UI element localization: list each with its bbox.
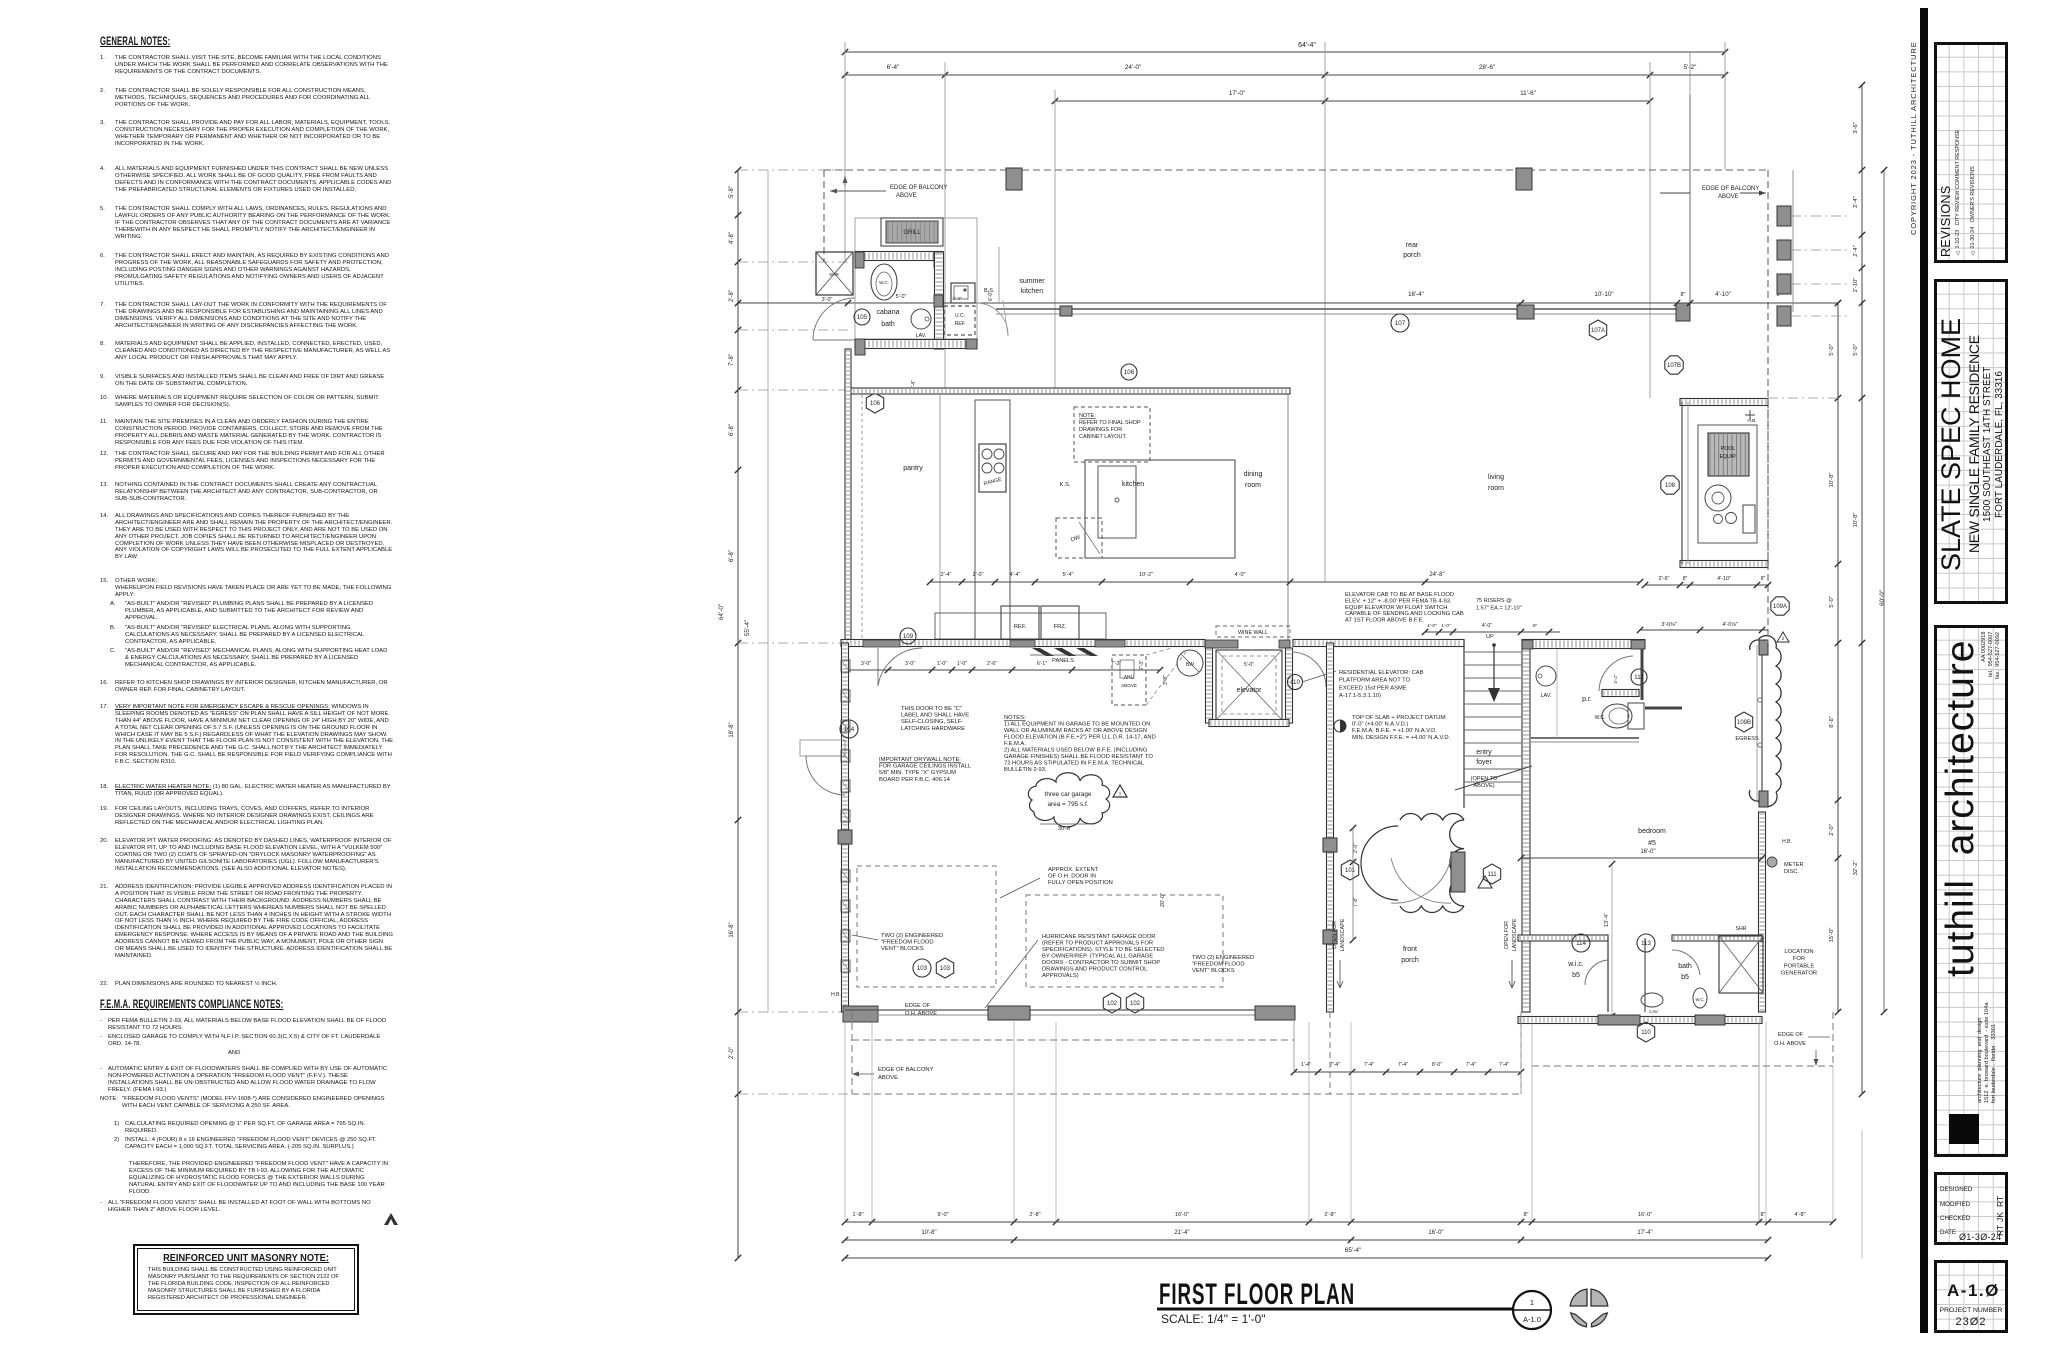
svg-text:24'-8": 24'-8"	[1429, 572, 1444, 578]
svg-text:4'-4": 4'-4"	[1010, 572, 1021, 578]
svg-text:REF.: REF.	[955, 321, 966, 327]
svg-text:1'-8": 1'-8"	[852, 1212, 863, 1218]
svg-text:POOL: POOL	[1721, 446, 1736, 452]
svg-text:EDGE OF BALCONY: EDGE OF BALCONY	[878, 1067, 934, 1073]
svg-text:H.B.: H.B.	[1782, 839, 1792, 845]
svg-text:2'-6": 2'-6"	[1659, 576, 1670, 582]
svg-text:SPECIFICATIONS). STYLE TO BE S: SPECIFICATIONS). STYLE TO BE SELECTED	[1042, 947, 1164, 953]
svg-text:2'-4": 2'-4"	[941, 572, 952, 578]
svg-text:10'-8": 10'-8"	[921, 1230, 936, 1236]
svg-text:"FREEDOM FLOOD: "FREEDOM FLOOD	[881, 940, 934, 946]
svg-text:CAPABLE OF SENDING AND LOCKING: CAPABLE OF SENDING AND LOCKING CAB	[1345, 611, 1464, 617]
svg-text:ELEV. + 12" + -8.00' PER FEMA: ELEV. + 12" + -8.00' PER FEMA TB 4-93.	[1345, 598, 1452, 604]
svg-text:SELF-CLOSING, SELF-: SELF-CLOSING, SELF-	[901, 719, 963, 725]
svg-text:5'-0": 5'-0"	[1853, 344, 1859, 356]
svg-text:16'-8": 16'-8"	[729, 922, 735, 937]
svg-text:BY OWNER/REP. (TYPICAL ALL GAR: BY OWNER/REP. (TYPICAL ALL GARAGE	[1042, 954, 1153, 960]
svg-text:F.E.M.A.: F.E.M.A.	[1004, 741, 1026, 747]
svg-text:15'-0": 15'-0"	[1829, 928, 1835, 943]
svg-text:111: 111	[1634, 674, 1644, 681]
svg-text:W.C.: W.C.	[1695, 997, 1704, 1002]
svg-text:4'-0⅝": 4'-0⅝"	[1722, 622, 1737, 628]
svg-text:U.C.: U.C.	[955, 313, 965, 319]
svg-text:porch: porch	[1403, 252, 1421, 259]
svg-text:110: 110	[1641, 1030, 1651, 1036]
svg-text:kitchen: kitchen	[1021, 288, 1043, 295]
svg-text:BOARD PER F.B.C. 406.14: BOARD PER F.B.C. 406.14	[879, 777, 951, 783]
svg-text:113: 113	[1641, 940, 1651, 947]
svg-text:living: living	[1488, 474, 1504, 481]
svg-text:109B: 109B	[1737, 720, 1751, 726]
svg-text:TOP OF SLAB + PROJECT DATUM:: TOP OF SLAB + PROJECT DATUM:	[1352, 715, 1447, 721]
svg-text:8'-0": 8'-0"	[1432, 1062, 1442, 1068]
svg-text:ABOVE: ABOVE	[896, 193, 917, 199]
svg-text:2'-8": 2'-8"	[1029, 1212, 1040, 1218]
svg-text:2'-0": 2'-0"	[1353, 843, 1359, 853]
svg-text:PANELS: PANELS	[1052, 658, 1074, 664]
svg-text:11'-6": 11'-6"	[1520, 90, 1536, 97]
svg-text:SHR: SHR	[1736, 926, 1747, 932]
svg-text:H.B.: H.B.	[1747, 418, 1756, 424]
svg-text:O.H. ABOVE: O.H. ABOVE	[905, 1011, 937, 1017]
svg-text:FIRST FLOOR PLAN: FIRST FLOOR PLAN	[1159, 1278, 1355, 1312]
svg-text:2'-8": 2'-8"	[1324, 1212, 1335, 1218]
svg-text:A-1.0: A-1.0	[1523, 1315, 1541, 1324]
svg-text:65'-4": 65'-4"	[1345, 1247, 1361, 1254]
svg-text:1: 1	[1119, 791, 1122, 796]
svg-text:NOTES:: NOTES:	[1004, 715, 1026, 721]
svg-text:TWO (2) ENGINEERED: TWO (2) ENGINEERED	[881, 933, 943, 939]
svg-text:109: 109	[903, 633, 914, 640]
svg-text:three car garage: three car garage	[1045, 791, 1092, 798]
svg-text:7'-4": 7'-4"	[1398, 1062, 1408, 1068]
svg-text:SCALE: 1/4" = 1'-0": SCALE: 1/4" = 1'-0"	[1161, 1312, 1266, 1326]
svg-text:17'-0": 17'-0"	[1229, 90, 1245, 97]
svg-text:1) ALL EQUIPMENT IN GARAGE TO: 1) ALL EQUIPMENT IN GARAGE TO BE MOUNTED…	[1004, 722, 1150, 728]
svg-text:110: 110	[1290, 679, 1300, 686]
svg-text:area = 795 s.f.: area = 795 s.f.	[1047, 801, 1088, 808]
svg-text:DOORS - CONTRACTOR TO SUBMIT S: DOORS - CONTRACTOR TO SUBMIT SHOP	[1042, 960, 1160, 966]
svg-text:103: 103	[917, 965, 928, 972]
svg-text:9'-0": 9'-0"	[937, 1212, 948, 1218]
svg-text:16'-0": 16'-0"	[1638, 1212, 1652, 1218]
svg-text:WINE WALL: WINE WALL	[1238, 630, 1268, 636]
svg-text:LABEL AND SHALL HAVE: LABEL AND SHALL HAVE	[901, 713, 969, 719]
svg-text:room: room	[1488, 485, 1504, 492]
svg-text:2'-8": 2'-8"	[729, 290, 735, 302]
svg-text:DRAWINGS FOR: DRAWINGS FOR	[1079, 427, 1122, 433]
svg-text:REFER TO FINAL SHOP: REFER TO FINAL SHOP	[1079, 420, 1141, 426]
svg-text:10'-10": 10'-10"	[1594, 291, 1613, 298]
svg-text:A-17.1-5.3.1.10): A-17.1-5.3.1.10)	[1339, 693, 1381, 699]
svg-text:7'-3": 7'-3"	[1139, 660, 1145, 670]
svg-text:1'-0": 1'-0"	[1441, 623, 1451, 629]
svg-text:5'-4": 5'-4"	[1063, 572, 1074, 578]
svg-text:107B: 107B	[1667, 363, 1681, 369]
svg-text:109A: 109A	[1773, 604, 1787, 610]
svg-text:3'-0": 3'-0"	[861, 661, 871, 667]
svg-text:THIS DOOR TO BE "C": THIS DOOR TO BE "C"	[901, 706, 962, 712]
svg-text:2'-4": 2'-4"	[952, 296, 962, 301]
svg-text:EQUIP ELEVATOR W/ FLOAT SWITCH: EQUIP ELEVATOR W/ FLOAT SWITCH	[1345, 605, 1447, 611]
svg-text:7'-4": 7'-4"	[1466, 1062, 1476, 1068]
svg-text:1: 1	[1530, 1298, 1534, 1307]
svg-text:LAV.: LAV.	[1649, 1009, 1658, 1014]
svg-text:W.C.: W.C.	[1595, 715, 1606, 721]
svg-text:EQUIP.: EQUIP.	[1720, 454, 1737, 460]
svg-text:0'-0" (+4.00' N.A.V.D.): 0'-0" (+4.00' N.A.V.D.)	[1352, 722, 1408, 728]
svg-text:75 RISERS @: 75 RISERS @	[1476, 598, 1512, 604]
svg-text:3'-6": 3'-6"	[1853, 122, 1859, 134]
svg-text:64'-0": 64'-0"	[718, 604, 725, 620]
svg-text:OPEN FOR: OPEN FOR	[1504, 921, 1510, 949]
svg-text:4'-8": 4'-8"	[1794, 1212, 1805, 1218]
svg-text:LATCHING HARDWARE: LATCHING HARDWARE	[901, 726, 965, 732]
svg-text:30'-8": 30'-8"	[1058, 826, 1072, 832]
svg-text:18'-8": 18'-8"	[729, 722, 735, 737]
svg-text:3'-0⅜": 3'-0⅜"	[1661, 622, 1676, 628]
svg-text:bath: bath	[881, 321, 895, 328]
svg-text:4'-10": 4'-10"	[1717, 576, 1731, 582]
svg-text:EDGE OF BALCONY: EDGE OF BALCONY	[1702, 186, 1759, 192]
svg-text:OPEN FOR: OPEN FOR	[1332, 921, 1338, 949]
svg-text:28'-6": 28'-6"	[1479, 64, 1495, 71]
svg-text:VENT" BLOCKS: VENT" BLOCKS	[1192, 968, 1235, 974]
svg-text:METER: METER	[1784, 862, 1804, 868]
svg-text:5/8" MIN. TYPE "X" GYPSUM: 5/8" MIN. TYPE "X" GYPSUM	[879, 770, 956, 776]
svg-text:bath: bath	[1678, 963, 1692, 970]
svg-text:W.C.: W.C.	[879, 280, 889, 285]
svg-text:101: 101	[1345, 868, 1356, 874]
svg-text:pantry: pantry	[903, 465, 923, 472]
svg-text:bedroom: bedroom	[1638, 828, 1666, 835]
svg-text:GRILL: GRILL	[903, 230, 921, 236]
svg-text:TWO (2) ENGINEERED: TWO (2) ENGINEERED	[1192, 955, 1254, 961]
svg-text:16'-0": 16'-0"	[1428, 1230, 1443, 1236]
svg-text:PLATFORM AREA NOT TO: PLATFORM AREA NOT TO	[1339, 678, 1411, 684]
svg-text:1'-0": 1'-0"	[957, 661, 967, 667]
svg-text:7'-4": 7'-4"	[1330, 1062, 1340, 1068]
svg-text:1'-4": 1'-4"	[1301, 1062, 1311, 1068]
svg-text:13'-4": 13'-4"	[1604, 913, 1610, 927]
svg-text:8": 8"	[1533, 623, 1538, 629]
svg-text:2: 2	[1782, 636, 1785, 641]
svg-text:60'-0": 60'-0"	[1879, 590, 1886, 606]
svg-text:106: 106	[1124, 369, 1135, 376]
svg-text:porch: porch	[1401, 957, 1419, 964]
svg-text:REF.: REF.	[1014, 624, 1027, 630]
svg-text:24'-0": 24'-0"	[1125, 64, 1141, 71]
svg-text:10'-8": 10'-8"	[1853, 513, 1859, 528]
svg-text:7'-4": 7'-4"	[1499, 1062, 1509, 1068]
svg-text:FULLY OPEN POSITION: FULLY OPEN POSITION	[1048, 880, 1113, 886]
svg-text:8": 8"	[1523, 1212, 1528, 1218]
svg-text:room: room	[1245, 482, 1261, 489]
svg-text:8": 8"	[1683, 576, 1688, 582]
svg-text:BULLETIN 2-93.: BULLETIN 2-93.	[1004, 767, 1047, 773]
svg-text:16'-4": 16'-4"	[1408, 291, 1424, 298]
svg-text:1'-0": 1'-0"	[1427, 623, 1437, 629]
svg-text:rear: rear	[1406, 242, 1419, 249]
svg-text:7'-8": 7'-8"	[729, 354, 735, 366]
svg-text:5'-8": 5'-8"	[729, 186, 735, 198]
svg-text:AT 1ST FLOOR ABOVE B.F.E.: AT 1ST FLOOR ABOVE B.F.E.	[1345, 618, 1424, 624]
svg-text:6'-4": 6'-4"	[887, 64, 900, 71]
svg-text:HURRICANE RESISTANT GARAGE DOO: HURRICANE RESISTANT GARAGE DOOR	[1042, 934, 1155, 940]
svg-text:EGRESS: EGRESS	[1735, 736, 1759, 742]
svg-text:b5: b5	[1572, 972, 1580, 979]
svg-text:RANGE: RANGE	[983, 477, 1003, 488]
svg-text:102: 102	[1107, 1001, 1118, 1007]
svg-text:DRAWINGS AND PRODUCT CONTROL: DRAWINGS AND PRODUCT CONTROL	[1042, 967, 1148, 973]
svg-text:6'-8": 6'-8"	[729, 550, 735, 562]
svg-text:2'-0": 2'-0"	[729, 1047, 735, 1059]
svg-text:2) ALL MATERIALS USED BELOW B: 2) ALL MATERIALS USED BELOW B.F.E. (INCL…	[1004, 748, 1148, 754]
svg-text:2'-0": 2'-0"	[973, 572, 984, 578]
svg-text:NOTE:: NOTE:	[1079, 413, 1096, 419]
svg-text:2'-0": 2'-0"	[1829, 824, 1835, 836]
svg-text:2'-6": 2'-6"	[987, 661, 997, 667]
svg-text:102: 102	[1130, 1001, 1141, 1007]
svg-text:107A: 107A	[1591, 328, 1605, 334]
svg-text:10'-2": 10'-2"	[1139, 572, 1153, 578]
svg-text:F.E.M.A. B.F.E. = +1.00' N.A.V: F.E.M.A. B.F.E. = +1.00' N.A.V.D.	[1352, 728, 1437, 734]
svg-text:FLOOD ELEVATION (B.F.E.+2") PE: FLOOD ELEVATION (B.F.E.+2") PER U.L.D.R.…	[1004, 735, 1156, 741]
svg-text:4'-0": 4'-0"	[1235, 572, 1246, 578]
svg-text:6'-1": 6'-1"	[1037, 661, 1047, 667]
svg-text:dining: dining	[1244, 471, 1263, 478]
svg-text:64'-4": 64'-4"	[1298, 42, 1316, 49]
svg-text:SHR: SHR	[829, 272, 839, 277]
svg-text:1'-0": 1'-0"	[937, 661, 947, 667]
svg-text:5'-0": 5'-0"	[1829, 344, 1835, 356]
svg-text:5'-0": 5'-0"	[1829, 596, 1835, 608]
svg-text:WALL OR ALUMINUM RACKS AT OR A: WALL OR ALUMINUM RACKS AT OR ABOVE DESIG…	[1004, 728, 1147, 734]
svg-text:3'-8": 3'-8"	[1163, 675, 1169, 685]
svg-text:2'-10": 2'-10"	[1853, 278, 1859, 293]
svg-text:4'-8": 4'-8"	[729, 232, 735, 244]
svg-text:APPROVALS): APPROVALS)	[1042, 973, 1079, 979]
svg-text:p.r.: p.r.	[1582, 696, 1592, 703]
svg-text:EDGE OF: EDGE OF	[905, 1003, 931, 1009]
svg-text:entry: entry	[1476, 749, 1492, 756]
svg-text:MIN. DESIGN F.F.E. = +4.00' N.: MIN. DESIGN F.F.E. = +4.00' N.A.V.D.	[1352, 735, 1451, 741]
svg-text:PORTABLE: PORTABLE	[1784, 963, 1815, 969]
svg-text:8'-8": 8'-8"	[1829, 716, 1835, 728]
svg-text:103: 103	[940, 966, 951, 972]
svg-text:DW: DW	[1070, 534, 1082, 543]
svg-text:16'-0": 16'-0"	[1175, 1212, 1189, 1218]
svg-text:"FREEDOM FLOOD: "FREEDOM FLOOD	[1192, 962, 1245, 968]
svg-text:ABOVE): ABOVE)	[1473, 783, 1494, 789]
svg-text:2'-4": 2'-4"	[1853, 196, 1859, 208]
svg-text:6'-0": 6'-0"	[988, 291, 994, 301]
svg-text:#5: #5	[1648, 840, 1656, 847]
svg-text:5'-0": 5'-0"	[896, 294, 907, 300]
svg-text:K.S.: K.S.	[1060, 482, 1071, 488]
svg-text:LAV.: LAV.	[1540, 693, 1551, 699]
svg-text:(OPEN TO: (OPEN TO	[1471, 776, 1498, 782]
svg-text:108: 108	[1665, 483, 1676, 489]
svg-text:4'-2": 4'-2"	[1613, 674, 1619, 684]
svg-text:10'-8": 10'-8"	[1829, 473, 1835, 488]
svg-text:FRZ.: FRZ.	[1054, 624, 1067, 630]
svg-text:16'-0": 16'-0"	[1640, 849, 1655, 855]
svg-text:FOR: FOR	[1793, 956, 1805, 962]
svg-text:EDGE OF BALCONY: EDGE OF BALCONY	[890, 185, 947, 191]
svg-text:LAV.: LAV.	[915, 333, 926, 339]
svg-text:GARAGE FINISHES) SHALL BE FLOO: GARAGE FINISHES) SHALL BE FLOOD RESISTAN…	[1004, 754, 1153, 760]
svg-text:3'-0": 3'-0"	[905, 661, 915, 667]
svg-text:O.H. ABOVE: O.H. ABOVE	[1774, 1041, 1806, 1047]
svg-text:OF O.H. DOOR IN: OF O.H. DOOR IN	[1048, 874, 1096, 880]
svg-text:w.i.c.: w.i.c.	[1567, 961, 1584, 968]
svg-text:1.57" EA.= 12'-10": 1.57" EA.= 12'-10"	[1476, 606, 1522, 612]
svg-text:front: front	[1403, 946, 1417, 953]
svg-text:H.B.: H.B.	[831, 992, 841, 998]
svg-text:107: 107	[1395, 320, 1406, 327]
svg-text:ABOVE: ABOVE	[1718, 194, 1739, 200]
svg-text:LANDSCAPE: LANDSCAPE	[1512, 918, 1518, 951]
svg-text:2'-4": 2'-4"	[1853, 245, 1859, 257]
svg-text:LOCATION: LOCATION	[1784, 949, 1813, 955]
svg-text:ABOVE: ABOVE	[878, 1075, 898, 1081]
svg-text:106: 106	[870, 401, 881, 407]
svg-text:32'-2": 32'-2"	[1853, 861, 1859, 876]
svg-text:55'-4": 55'-4"	[744, 620, 751, 636]
svg-text:elevator: elevator	[1237, 687, 1263, 694]
svg-text:b5: b5	[1681, 974, 1689, 981]
svg-text:EDGE OF: EDGE OF	[1778, 1032, 1804, 1038]
svg-text:FOR GARAGE CEILINGS INSTALL: FOR GARAGE CEILINGS INSTALL	[879, 764, 972, 770]
svg-text:foyer: foyer	[1476, 759, 1492, 766]
svg-text:111: 111	[1487, 872, 1497, 878]
svg-text:8": 8"	[1761, 576, 1766, 582]
svg-text:ELEVATOR CAB TO BE AT BASE FLO: ELEVATOR CAB TO BE AT BASE FLOOD	[1345, 592, 1454, 598]
svg-text:72 HOURS AS STIPULATED IN F.E.: 72 HOURS AS STIPULATED IN F.E.M.A. TECHN…	[1004, 761, 1145, 767]
svg-text:VENT" BLOCKS: VENT" BLOCKS	[881, 946, 924, 952]
svg-text:4'-10": 4'-10"	[1715, 291, 1731, 298]
svg-text:8": 8"	[1681, 292, 1686, 298]
svg-text:105: 105	[857, 314, 868, 321]
svg-text:UP: UP	[1486, 634, 1494, 640]
svg-text:(REFER TO PRODUCT APPROVALS FO: (REFER TO PRODUCT APPROVALS FOR	[1042, 941, 1153, 947]
svg-text:IMPORTANT DRYWALL NOTE:: IMPORTANT DRYWALL NOTE:	[879, 757, 961, 763]
svg-text:EXCEED 15sf PER ASME: EXCEED 15sf PER ASME	[1339, 685, 1407, 691]
svg-text:17'-4": 17'-4"	[1637, 1230, 1652, 1236]
svg-text:3'-0": 3'-0"	[822, 297, 833, 303]
svg-text:7'-8": 7'-8"	[1353, 897, 1359, 907]
svg-text:8": 8"	[1760, 1212, 1765, 1218]
svg-text:kitchen: kitchen	[1122, 481, 1144, 488]
svg-text:6'-8": 6'-8"	[729, 424, 735, 436]
svg-text:APPROX. EXTENT: APPROX. EXTENT	[1048, 867, 1099, 873]
svg-text:5'-0": 5'-0"	[1244, 662, 1254, 668]
svg-text:7'-4": 7'-4"	[1364, 1062, 1374, 1068]
svg-text:4'-0": 4'-0"	[1482, 623, 1492, 629]
svg-text:CABINET LAYOUT.: CABINET LAYOUT.	[1079, 434, 1127, 440]
svg-text:cabana: cabana	[877, 309, 900, 316]
svg-text:ABOVE: ABOVE	[1121, 683, 1137, 688]
svg-text:LANDSCAPE: LANDSCAPE	[1340, 918, 1346, 951]
svg-text:DISC.: DISC.	[1784, 869, 1799, 875]
svg-text:GENERATOR: GENERATOR	[1781, 971, 1817, 977]
svg-text:114: 114	[1576, 940, 1586, 947]
svg-text:RESIDENTIAL ELEVATOR: CAB: RESIDENTIAL ELEVATOR: CAB	[1339, 670, 1424, 676]
svg-text:summer: summer	[1019, 278, 1045, 285]
svg-text:21'-4": 21'-4"	[1174, 1230, 1189, 1236]
